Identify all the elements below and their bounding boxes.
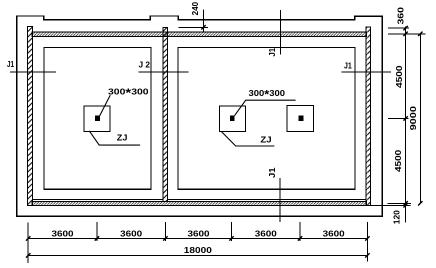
svg-text:3600: 3600 [255, 230, 278, 239]
bottom dim line 2 [28, 254, 367, 256]
left room inner rectangle [44, 48, 151, 190]
svg-text:4500: 4500 [395, 65, 404, 88]
svg-text:ZJ: ZJ [260, 136, 271, 145]
right dim extension wall bottom [371, 204, 411, 206]
ticks bottom dim line 1 [26, 236, 370, 240]
dim 240 extension line [178, 26, 208, 28]
svg-text:3600: 3600 [52, 230, 75, 239]
right dim line 1 [405, 26, 407, 222]
svg-text:360: 360 [397, 6, 406, 24]
svg-text:J1: J1 [268, 47, 277, 56]
right dim extension axis top [388, 33, 425, 35]
leader 300*300 left [100, 95, 111, 115]
bottom dim extension right [366, 222, 368, 262]
right room inner rectangle [178, 48, 355, 190]
footing square ZJ 3 [287, 106, 314, 132]
bottom dim extension 3 [164, 222, 166, 241]
bottom dim extension 4 [231, 222, 233, 241]
leader ZJ right [221, 131, 274, 146]
footing square ZJ 2 [219, 106, 245, 131]
column dot 2 [230, 116, 235, 121]
axis line J2 middle [139, 71, 189, 73]
bottom wall band (hatched) [32, 201, 366, 205]
leader ZJ left [89, 131, 140, 145]
middle wall (hatched) [163, 27, 168, 201]
section line J1 bottom [279, 178, 281, 222]
dim 240 line [203, 10, 205, 33]
svg-text:3600: 3600 [323, 230, 346, 239]
svg-text:J1: J1 [268, 167, 277, 178]
axis line J1 right [341, 71, 391, 73]
right dim extension top (foundation edge) [388, 27, 409, 29]
right dim extension axis bottom [388, 202, 411, 204]
axis line J1 left [10, 71, 56, 73]
outer foundation boundary [17, 16, 383, 216]
svg-text:3600: 3600 [120, 230, 143, 239]
svg-text:300*300: 300*300 [108, 87, 149, 100]
svg-text:J 2: J 2 [139, 60, 151, 69]
bottom foundation inner edge line (left segment) [32, 198, 163, 200]
right dim extension middle [388, 117, 409, 119]
right dim line 2 [419, 34, 421, 204]
bottom foundation inner edge line (right segment) [168, 198, 367, 200]
dim 240 tick [201, 25, 205, 29]
svg-text:300*300: 300*300 [249, 88, 286, 102]
ticks bottom dim line 2 [26, 253, 370, 257]
svg-text:4500: 4500 [394, 149, 403, 172]
bottom dim line 1 [28, 237, 367, 239]
column dot 1 [95, 116, 100, 121]
svg-text:9000: 9000 [409, 105, 418, 130]
footing square ZJ 1 [84, 106, 110, 131]
svg-text:3600: 3600 [188, 230, 211, 239]
svg-text:120: 120 [393, 210, 402, 225]
svg-text:18000: 18000 [184, 246, 213, 255]
section line J1 top [279, 10, 281, 54]
left wall (hatched) [27, 27, 32, 206]
bottom dim extension left [27, 223, 29, 263]
right wall (hatched) [366, 27, 371, 206]
svg-text:J1: J1 [344, 61, 352, 70]
svg-text:240: 240 [191, 1, 200, 15]
bottom dim extension 2 [96, 222, 98, 241]
top wall band (hatched) [32, 32, 367, 36]
column dot 3 [299, 116, 304, 121]
bottom dim extension 5 [299, 222, 301, 241]
ticks right dim line 1 [403, 26, 407, 208]
leader 300*300 right [235, 100, 296, 116]
svg-text:ZJ: ZJ [117, 133, 128, 142]
ticks right dim line 2 [418, 32, 422, 206]
svg-text:J1: J1 [7, 60, 14, 69]
